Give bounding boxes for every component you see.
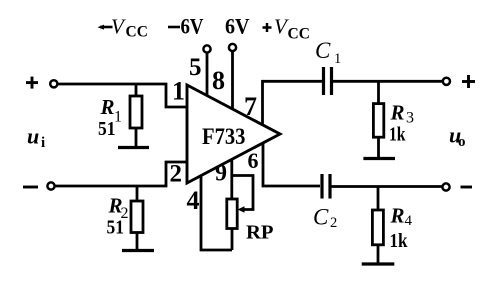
svg-text:2: 2 <box>170 160 183 187</box>
label u_o <box>449 123 466 150</box>
resistor R2 <box>131 186 143 250</box>
label C2 <box>313 205 337 232</box>
wire pin4 <box>201 176 232 251</box>
supply terminal pin5 <box>203 45 210 52</box>
label -6V <box>168 14 204 39</box>
svg-text:51: 51 <box>98 118 116 140</box>
wire C2 to output- <box>330 185 442 188</box>
label R1 <box>100 95 123 126</box>
svg-text:R: R <box>390 101 405 125</box>
label R2 <box>108 194 129 223</box>
resistor R3 <box>373 81 383 158</box>
svg-text:RP: RP <box>246 222 274 244</box>
supply terminal pin8 <box>229 44 236 51</box>
svg-text:CC: CC <box>288 26 310 43</box>
input terminal - <box>47 182 54 189</box>
svg-text:CC: CC <box>126 24 148 41</box>
label C1 <box>315 38 341 67</box>
svg-text:R: R <box>390 204 405 228</box>
ground R4 <box>362 262 395 265</box>
wire pin8 supply <box>231 51 234 110</box>
wire C1 to output+ <box>332 80 443 83</box>
op-amp U1 F733 <box>187 85 280 183</box>
svg-text:C: C <box>315 38 331 63</box>
svg-text:4: 4 <box>405 213 413 229</box>
wire pin9 <box>230 160 233 200</box>
input - mark <box>23 186 38 189</box>
resistor R1 <box>130 84 142 147</box>
svg-text:4: 4 <box>187 186 200 215</box>
svg-text:6V: 6V <box>225 14 250 39</box>
capacitor C2 <box>322 174 330 199</box>
svg-text:8: 8 <box>212 66 225 95</box>
svg-text:1: 1 <box>172 77 185 106</box>
svg-text:i: i <box>41 135 45 151</box>
label u_i <box>27 124 45 152</box>
wire pin5 supply <box>206 53 209 97</box>
wire input+ to pin1 <box>58 84 188 107</box>
wire input- to pin2 <box>55 162 188 186</box>
output + mark <box>462 75 475 88</box>
svg-text:R: R <box>100 95 115 119</box>
wiper RP <box>232 176 253 213</box>
input terminal + <box>50 80 57 87</box>
resistor R4 <box>372 187 383 264</box>
svg-text:6V: 6V <box>181 14 204 39</box>
svg-text:6: 6 <box>248 148 259 173</box>
ground R3 <box>363 157 395 160</box>
svg-text:o: o <box>458 134 466 150</box>
capacitor C1 <box>324 67 332 95</box>
svg-text:7: 7 <box>244 92 257 121</box>
svg-text:3: 3 <box>406 110 414 127</box>
ground R2 <box>122 249 154 252</box>
label R3 <box>390 101 415 127</box>
svg-text:51: 51 <box>107 217 125 239</box>
input + mark <box>26 77 38 89</box>
svg-text:9: 9 <box>215 161 227 187</box>
output terminal - <box>442 183 449 190</box>
svg-text:C: C <box>313 205 329 230</box>
svg-text:5: 5 <box>189 54 202 81</box>
svg-text:u: u <box>27 124 39 149</box>
label +VCC <box>263 15 310 43</box>
output terminal + <box>443 78 450 85</box>
ground R1 <box>118 146 149 149</box>
svg-text:V: V <box>111 15 126 39</box>
svg-text:1: 1 <box>334 51 341 67</box>
svg-text:F733: F733 <box>202 124 246 149</box>
svg-text:2: 2 <box>330 215 337 231</box>
label -VCC <box>98 15 148 41</box>
output - mark <box>461 186 473 189</box>
wire pin6 <box>263 143 320 187</box>
potentiometer RP <box>227 199 237 250</box>
label R4 <box>390 204 413 230</box>
svg-text:1k: 1k <box>389 124 406 146</box>
wire pin7 <box>263 81 324 125</box>
svg-text:1k: 1k <box>390 230 409 252</box>
